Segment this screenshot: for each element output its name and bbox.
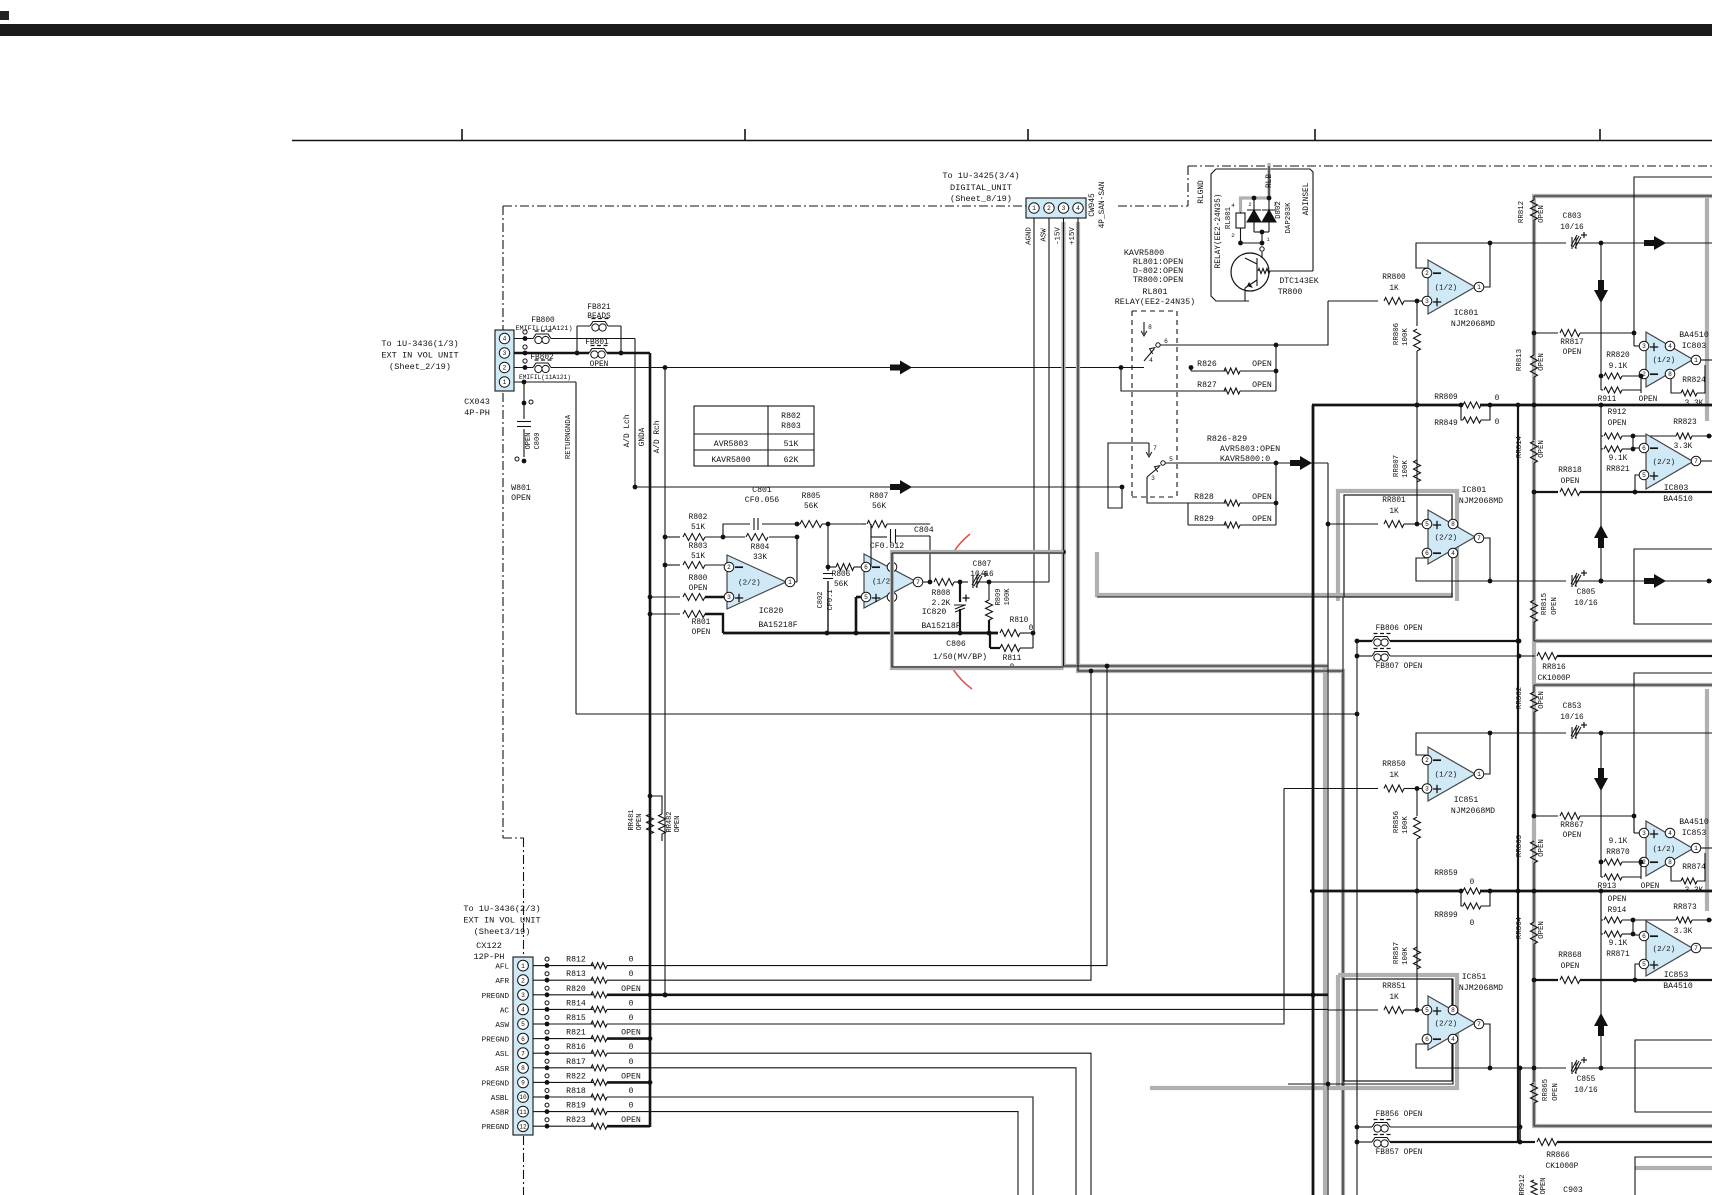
wire A/D Rch down bbox=[664, 368, 666, 996]
feedback wire IC801(1/2) bbox=[1416, 243, 1490, 282]
svg-text:7: 7 bbox=[916, 579, 920, 586]
wire R823 PREGND row thick bbox=[607, 1125, 650, 1128]
connector pin 6 PREGND bbox=[518, 1033, 529, 1044]
svg-text:2: 2 bbox=[1248, 202, 1251, 208]
wire output row to C855 bbox=[1490, 1067, 1566, 1069]
svg-text:DTC143EK: DTC143EK bbox=[1279, 277, 1318, 286]
capacitor C805 10/16 bbox=[1571, 575, 1573, 587]
svg-text:OPEN: OPEN bbox=[689, 585, 708, 593]
svg-text:EMIFIL(11A121): EMIFIL(11A121) bbox=[515, 325, 572, 333]
svg-text:3.3K: 3.3K bbox=[1685, 887, 1704, 895]
ferrite bead FB800 EMIFIL(11A121) bbox=[533, 337, 551, 341]
svg-text:RR873: RR873 bbox=[1673, 904, 1697, 912]
svg-text:5: 5 bbox=[521, 1021, 525, 1028]
svg-text:10/16: 10/16 bbox=[1574, 1087, 1598, 1095]
wire A/D Rch into R802 bbox=[663, 535, 668, 540]
capacitor C800 OPEN bbox=[523, 382, 525, 403]
svg-text:7: 7 bbox=[1694, 458, 1698, 465]
svg-text:RR481: RR481 bbox=[628, 809, 636, 830]
svg-text:ASBL: ASBL bbox=[491, 1095, 510, 1103]
connector pin 12 PREGND bbox=[518, 1121, 529, 1132]
svg-text:PREGND: PREGND bbox=[482, 993, 510, 1001]
wire pin 1 bbox=[533, 965, 543, 967]
svg-text:C803: C803 bbox=[1563, 213, 1582, 221]
svg-text:OPEN: OPEN bbox=[1538, 921, 1546, 939]
svg-text:C805: C805 bbox=[1577, 589, 1596, 597]
svg-text:2.2K: 2.2K bbox=[932, 600, 951, 608]
capacitor C804 CF0.012 bbox=[871, 536, 887, 538]
feedback wire IC851(1/2) bbox=[1416, 733, 1490, 769]
svg-text:3: 3 bbox=[1151, 475, 1155, 482]
resistor R809 100K bbox=[988, 582, 990, 600]
svg-text:CX043: CX043 bbox=[464, 397, 490, 407]
wire ASL row bbox=[607, 1053, 1091, 1195]
svg-text:OPEN: OPEN bbox=[621, 1116, 641, 1125]
svg-text:RR807: RR807 bbox=[1393, 455, 1401, 477]
svg-text:1K: 1K bbox=[1389, 508, 1399, 516]
svg-text:4: 4 bbox=[1231, 202, 1235, 209]
wire pin4 A/D Lch bbox=[514, 338, 635, 340]
svg-text:C806: C806 bbox=[946, 640, 966, 649]
svg-text:R821: R821 bbox=[566, 1029, 586, 1038]
svg-text:9.1K: 9.1K bbox=[1609, 940, 1628, 948]
wire pin1 RETURNGNDA bbox=[514, 381, 576, 383]
svg-text:56K: 56K bbox=[804, 503, 818, 511]
svg-text:C807: C807 bbox=[973, 561, 992, 569]
svg-text:OPEN: OPEN bbox=[1563, 349, 1582, 357]
connector pin 2 AFR bbox=[518, 975, 529, 986]
resistor R913 OPEN bbox=[1600, 862, 1602, 877]
wire -15V down bbox=[1064, 218, 1329, 666]
svg-text:OPEN: OPEN bbox=[511, 494, 531, 503]
resistor R827 OPEN bbox=[1119, 365, 1124, 370]
svg-text:1K: 1K bbox=[1389, 772, 1399, 780]
svg-text:BA4510: BA4510 bbox=[1663, 495, 1693, 504]
svg-text:0: 0 bbox=[629, 1043, 634, 1052]
svg-text:R808: R808 bbox=[932, 590, 951, 598]
svg-text:OPEN: OPEN bbox=[1561, 478, 1580, 486]
svg-text:3: 3 bbox=[1425, 298, 1429, 305]
svg-text:R814: R814 bbox=[566, 999, 586, 1008]
resistor RR814 OPEN bbox=[1531, 441, 1538, 463]
svg-text:AFR: AFR bbox=[495, 978, 509, 986]
svg-text:OPEN: OPEN bbox=[621, 1029, 641, 1038]
table AVR5803/KAVR5800 values bbox=[694, 406, 814, 466]
svg-text:(2/2): (2/2) bbox=[1653, 459, 1676, 467]
wire thick bias bus y405 bbox=[1312, 404, 1712, 407]
svg-text:R827: R827 bbox=[1197, 381, 1217, 390]
svg-text:4: 4 bbox=[1668, 830, 1672, 837]
ferrite bead FB801 OPEN bbox=[589, 351, 607, 355]
svg-text:EXT IN VOL UNIT: EXT IN VOL UNIT bbox=[463, 916, 540, 926]
svg-text:BA4510: BA4510 bbox=[1679, 331, 1709, 340]
svg-text:CF0.1: CF0.1 bbox=[827, 589, 835, 610]
wire pin3 GNDA bbox=[514, 352, 650, 355]
svg-text:OPEN: OPEN bbox=[1608, 896, 1627, 904]
svg-text:PREGND: PREGND bbox=[482, 1080, 510, 1088]
svg-text:1: 1 bbox=[1694, 357, 1698, 364]
resistor RR820 9.1K bbox=[1599, 374, 1604, 379]
bias arrow up x1601 bbox=[1600, 405, 1602, 581]
svg-text:NJM2068MD: NJM2068MD bbox=[1459, 984, 1503, 993]
op-amp IC803 (2/2) bbox=[1646, 434, 1693, 489]
wire output to C853 bbox=[1490, 732, 1566, 734]
wire ASBR row bbox=[607, 1112, 1018, 1195]
gray highlight IC801(2/2) box bbox=[1338, 491, 1457, 601]
outline relay drive box bbox=[1216, 169, 1313, 271]
ferrite bead FB857 OPEN bbox=[1355, 1140, 1360, 1145]
connector CX043 4P-PH bbox=[495, 330, 514, 391]
svg-text:(1/2): (1/2) bbox=[1653, 846, 1676, 854]
svg-text:ADINSEL: ADINSEL bbox=[1303, 182, 1311, 215]
resistor RR812 OPEN bbox=[1533, 196, 1535, 200]
svg-text:1K: 1K bbox=[1389, 994, 1399, 1002]
resistor RR862 OPEN bbox=[1533, 685, 1535, 692]
svg-text:PREGND: PREGND bbox=[482, 1124, 510, 1132]
svg-text:RR862: RR862 bbox=[1516, 687, 1524, 709]
wire output to C803 bbox=[1490, 242, 1566, 244]
wire A/D Rch into relay bbox=[635, 486, 1122, 488]
capacitor C802 CF0.1 bbox=[827, 524, 829, 571]
arrow on pin2 line bbox=[890, 361, 912, 375]
svg-text:FB801: FB801 bbox=[585, 339, 609, 347]
svg-text:AFL: AFL bbox=[495, 964, 509, 972]
svg-text:5: 5 bbox=[1425, 1007, 1429, 1014]
svg-text:RR814: RR814 bbox=[1516, 435, 1524, 458]
svg-text:R828: R828 bbox=[1194, 493, 1214, 502]
feedback wire IC851(2/2) bbox=[1416, 1044, 1490, 1068]
svg-text:100K: 100K bbox=[1004, 588, 1012, 606]
svg-text:6: 6 bbox=[1642, 445, 1646, 452]
svg-text:1: 1 bbox=[521, 963, 525, 970]
svg-text:1: 1 bbox=[1477, 771, 1481, 778]
svg-text:5: 5 bbox=[1425, 521, 1429, 528]
svg-text:8: 8 bbox=[521, 1065, 525, 1072]
svg-text:ASW: ASW bbox=[1041, 228, 1049, 242]
svg-text:A/D Rch: A/D Rch bbox=[654, 421, 662, 454]
svg-text:RR856: RR856 bbox=[1393, 811, 1401, 833]
svg-text:FB807 OPEN: FB807 OPEN bbox=[1376, 663, 1423, 671]
outline IC851(2/2) block bbox=[1344, 979, 1452, 1081]
svg-text:0: 0 bbox=[629, 970, 634, 979]
svg-text:ASBR: ASBR bbox=[491, 1110, 510, 1118]
wire IC851 top rail bbox=[1534, 684, 1712, 686]
svg-text:GNDA: GNDA bbox=[639, 427, 647, 446]
op-amp IC820 (2/2) bbox=[727, 555, 786, 609]
connector pin 4 AC bbox=[518, 1004, 529, 1015]
relay dashed box bbox=[1131, 311, 1133, 497]
resistor R800 OPEN bbox=[648, 595, 653, 600]
svg-text:To 1U-3436(1/3): To 1U-3436(1/3) bbox=[381, 339, 458, 349]
wire pin 11 bbox=[533, 1111, 543, 1113]
svg-text:R809: R809 bbox=[995, 589, 1003, 606]
wire AFR row bbox=[607, 671, 1091, 980]
resistor RR807 100K bbox=[1414, 460, 1421, 482]
svg-text:AVR5803: AVR5803 bbox=[714, 440, 748, 449]
wire R822 PREGND row thick bbox=[607, 1081, 650, 1084]
wire ASBL row bbox=[607, 1097, 1033, 1195]
op-amp IC853 BA4510 (1/2) bbox=[1646, 821, 1693, 876]
svg-text:C855: C855 bbox=[1577, 1076, 1596, 1084]
svg-text:56K: 56K bbox=[872, 503, 886, 511]
svg-text:RR806: RR806 bbox=[1393, 323, 1401, 345]
gray highlight mid-right bbox=[1534, 639, 1712, 643]
black wire IC851(2/2) route bbox=[1288, 979, 1453, 1084]
gray highlight RR812 path bbox=[1534, 196, 1712, 1126]
svg-text:OPEN: OPEN bbox=[636, 814, 644, 831]
ferrite bead FB802 bbox=[533, 366, 551, 370]
svg-text:FB821: FB821 bbox=[587, 304, 611, 312]
bottom right boxes bbox=[1635, 1040, 1712, 1112]
wire pin 4 bbox=[533, 1008, 543, 1010]
gray highlight relay RLB bbox=[1241, 163, 1270, 212]
svg-text:(2/2): (2/2) bbox=[1435, 1021, 1458, 1029]
resistor RR817 OPEN bbox=[1534, 332, 1558, 334]
svg-text:1: 1 bbox=[1694, 845, 1698, 852]
svg-text:9.1K: 9.1K bbox=[1609, 455, 1628, 463]
svg-text:TR800:OPEN: TR800:OPEN bbox=[1133, 275, 1183, 285]
gray highlight right edge BA4510 bbox=[1705, 196, 1709, 421]
svg-text:R816: R816 bbox=[566, 1043, 586, 1052]
resistor RR871 9.1K bbox=[1600, 920, 1602, 934]
svg-text:FB802: FB802 bbox=[530, 354, 554, 362]
svg-text:1: 1 bbox=[788, 579, 792, 586]
svg-text:4P_SAN-SAN: 4P_SAN-SAN bbox=[1099, 181, 1107, 228]
svg-text:R813: R813 bbox=[566, 970, 586, 979]
resistor R826 OPEN bbox=[1189, 365, 1194, 370]
svg-text:R803: R803 bbox=[781, 422, 801, 431]
wire AC row bbox=[607, 1008, 1328, 1010]
svg-text:BA15218F: BA15218F bbox=[921, 622, 960, 631]
svg-text:R810: R810 bbox=[1010, 617, 1029, 625]
svg-text:RR813: RR813 bbox=[1516, 349, 1524, 371]
svg-text:10: 10 bbox=[519, 1094, 527, 1101]
svg-text:56K: 56K bbox=[834, 581, 848, 589]
wire output row to C805 bbox=[1490, 580, 1566, 582]
wire BA4510 out bbox=[1701, 359, 1712, 361]
svg-text:100K: 100K bbox=[1402, 460, 1410, 478]
svg-text:ASL: ASL bbox=[495, 1051, 509, 1059]
wire IC820(1/2) output bbox=[923, 581, 932, 583]
svg-text:8: 8 bbox=[1668, 859, 1672, 866]
wire ASW row to RR850 bbox=[1284, 788, 1378, 790]
resistor R803 51K bbox=[665, 564, 680, 566]
svg-text:1K: 1K bbox=[1389, 285, 1399, 293]
op-amp IC851 (2/2) bbox=[1417, 1009, 1422, 1011]
page artifact top-left bbox=[0, 11, 9, 20]
svg-text:CF0.056: CF0.056 bbox=[745, 496, 779, 505]
svg-text:1: 1 bbox=[1477, 284, 1481, 291]
svg-text:4: 4 bbox=[521, 1007, 525, 1014]
svg-text:5: 5 bbox=[1642, 472, 1646, 479]
svg-text:AC: AC bbox=[500, 1007, 510, 1015]
resistor R828 OPEN bbox=[1147, 477, 1188, 503]
svg-text:W801: W801 bbox=[511, 484, 531, 493]
wire pin 8 bbox=[533, 1067, 543, 1069]
svg-text:R822: R822 bbox=[566, 1072, 586, 1081]
svg-text:9: 9 bbox=[521, 1080, 525, 1087]
svg-text:OPEN: OPEN bbox=[1641, 883, 1660, 891]
svg-text:IC801: IC801 bbox=[1454, 309, 1479, 318]
svg-text:RR868: RR868 bbox=[1558, 952, 1582, 960]
svg-text:2: 2 bbox=[727, 564, 731, 571]
svg-text:100K: 100K bbox=[1402, 816, 1410, 834]
svg-text:R802: R802 bbox=[689, 514, 708, 522]
svg-text:RR820: RR820 bbox=[1606, 352, 1630, 360]
svg-text:CK1000P: CK1000P bbox=[1538, 675, 1571, 683]
svg-text:RR857: RR857 bbox=[1393, 942, 1401, 964]
svg-text:(1/2): (1/2) bbox=[1435, 285, 1458, 293]
svg-text:0: 0 bbox=[629, 1102, 634, 1111]
wire thick vertical x1313 bbox=[1312, 405, 1315, 1195]
op-amp IC820 (1/2) bbox=[864, 554, 915, 608]
svg-text:2: 2 bbox=[1425, 757, 1429, 764]
resistor R829 OPEN bbox=[1187, 503, 1189, 525]
svg-text:2: 2 bbox=[1047, 205, 1051, 212]
svg-text:(Sheet_2/19): (Sheet_2/19) bbox=[389, 362, 451, 372]
svg-text:RETURNGNDA: RETURNGNDA bbox=[565, 414, 573, 459]
ferrite bead FB807 OPEN bbox=[1357, 655, 1372, 657]
svg-text:R819: R819 bbox=[566, 1102, 586, 1111]
svg-text:RR801: RR801 bbox=[1382, 497, 1406, 505]
resistor RR866 CK1000P bbox=[1520, 1141, 1535, 1143]
svg-text:AVR5803:OPEN: AVR5803:OPEN bbox=[1220, 444, 1280, 454]
resistor RR821 9.1K bbox=[1600, 436, 1602, 449]
svg-text:51K: 51K bbox=[691, 524, 705, 532]
svg-text:OPEN: OPEN bbox=[1561, 963, 1580, 971]
wire pin 12 bbox=[533, 1125, 543, 1127]
svg-text:R818: R818 bbox=[566, 1087, 586, 1096]
wire AGND down bbox=[1033, 218, 1035, 633]
svg-text:RR815: RR815 bbox=[1541, 593, 1549, 615]
svg-text:(2/2): (2/2) bbox=[738, 580, 761, 588]
svg-text:BEADS: BEADS bbox=[587, 313, 611, 321]
svg-text:(2/2): (2/2) bbox=[1653, 946, 1676, 954]
svg-text:OPEN: OPEN bbox=[1551, 597, 1559, 615]
svg-text:RR824: RR824 bbox=[1682, 377, 1706, 385]
thick analog bus bbox=[723, 632, 990, 635]
svg-text:RR850: RR850 bbox=[1382, 761, 1406, 769]
svg-text:7: 7 bbox=[1694, 945, 1698, 952]
svg-text:RR867: RR867 bbox=[1560, 822, 1584, 830]
svg-text:0: 0 bbox=[1029, 625, 1034, 633]
wire RR812 top to gray bbox=[1534, 195, 1712, 197]
svg-text:51K: 51K bbox=[784, 440, 799, 449]
svg-text:IC820: IC820 bbox=[759, 607, 784, 616]
connector pin 7 ASL bbox=[518, 1048, 529, 1059]
svg-text:EXT IN VOL UNIT: EXT IN VOL UNIT bbox=[381, 351, 458, 361]
svg-text:1/50(MV/BP): 1/50(MV/BP) bbox=[933, 652, 987, 662]
svg-text:DIGITAL_UNIT: DIGITAL_UNIT bbox=[950, 183, 1012, 193]
svg-text:DAP203K: DAP203K bbox=[1285, 202, 1293, 234]
svg-text:1: 1 bbox=[1032, 205, 1036, 212]
wire pin 10 bbox=[533, 1096, 543, 1098]
svg-text:C804: C804 bbox=[914, 526, 934, 535]
svg-text:PREGND: PREGND bbox=[482, 1037, 510, 1045]
svg-text:OPEN: OPEN bbox=[1252, 515, 1272, 524]
svg-text:RR870: RR870 bbox=[1606, 849, 1630, 857]
wire vertical x1520 bottom bbox=[1519, 1068, 1521, 1142]
wire AFL row bbox=[607, 666, 1107, 966]
feedback R807 56K bbox=[870, 524, 872, 567]
svg-text:OPEN: OPEN bbox=[1538, 205, 1546, 223]
svg-text:3: 3 bbox=[521, 992, 525, 999]
svg-text:RR818: RR818 bbox=[1558, 467, 1582, 475]
connector pin 8 ASR bbox=[518, 1062, 529, 1073]
transistor TR800 DTC143EK bbox=[1231, 253, 1269, 291]
svg-text:RR866: RR866 bbox=[1546, 1152, 1570, 1160]
resistor RR809 0 / RR849 0 pair bbox=[1462, 400, 1480, 409]
svg-text:+15V: +15V bbox=[1069, 227, 1077, 245]
svg-text:C802: C802 bbox=[817, 592, 825, 609]
svg-text:RR851: RR851 bbox=[1382, 983, 1406, 991]
svg-text:OPEN: OPEN bbox=[692, 629, 711, 637]
bias arrow up lower bbox=[1600, 891, 1602, 1068]
unit border EXT IN VOL UNIT bbox=[502, 206, 504, 838]
svg-text:R826-829: R826-829 bbox=[1207, 434, 1247, 444]
wire pin2 A/D Rch bbox=[514, 367, 1144, 369]
resistor RR870 9.1K bbox=[1599, 860, 1604, 865]
svg-text:IC851: IC851 bbox=[1454, 796, 1479, 805]
wire RR865 corner right bbox=[1534, 1125, 1712, 1127]
svg-text:CF0.012: CF0.012 bbox=[870, 542, 904, 551]
svg-text:FB857 OPEN: FB857 OPEN bbox=[1376, 1149, 1423, 1157]
svg-text:NJM2068MD: NJM2068MD bbox=[1451, 320, 1495, 329]
wire ASW row bbox=[607, 789, 1284, 1025]
svg-text:0: 0 bbox=[1495, 395, 1500, 403]
wire stub y1083 bbox=[1326, 1082, 1331, 1087]
svg-text:OPEN: OPEN bbox=[1563, 832, 1582, 840]
connector pin 3 PREGND bbox=[518, 989, 529, 1000]
resistor RR863 OPEN bbox=[1532, 814, 1537, 819]
svg-text:RELAY(EE2-24N35): RELAY(EE2-24N35) bbox=[1115, 297, 1195, 307]
red annotation arcs bbox=[953, 534, 970, 553]
svg-text:R817: R817 bbox=[566, 1058, 586, 1067]
svg-text:FB856 OPEN: FB856 OPEN bbox=[1376, 1111, 1423, 1119]
svg-text:FB800: FB800 bbox=[531, 317, 555, 325]
svg-text:R805: R805 bbox=[802, 493, 821, 501]
wire upper contact to IC801(1/2) bbox=[1160, 301, 1328, 345]
connector pin 1 AFL bbox=[518, 960, 529, 971]
wire R821 PREGND row thick bbox=[607, 1037, 650, 1040]
svg-text:-15V: -15V bbox=[1055, 227, 1063, 245]
svg-text:R802: R802 bbox=[781, 412, 801, 421]
svg-text:2: 2 bbox=[1231, 232, 1235, 239]
svg-text:6: 6 bbox=[1425, 550, 1429, 557]
svg-text:R803: R803 bbox=[689, 543, 708, 551]
svg-text:4P-PH: 4P-PH bbox=[464, 408, 490, 418]
svg-text:RR871: RR871 bbox=[1606, 951, 1630, 959]
svg-text:4: 4 bbox=[1451, 1036, 1455, 1043]
svg-text:IC801: IC801 bbox=[1462, 486, 1487, 495]
wire R820 PREGND row thick bbox=[607, 993, 1328, 996]
svg-text:NJM2068MD: NJM2068MD bbox=[1459, 497, 1503, 506]
svg-text:9.1K: 9.1K bbox=[1609, 838, 1628, 846]
svg-text:BA4510: BA4510 bbox=[1663, 982, 1693, 991]
op-amp IC853 (2/2) bbox=[1646, 921, 1693, 976]
wire RETURNGNDA down bbox=[575, 382, 577, 714]
svg-text:RR849: RR849 bbox=[1434, 420, 1458, 428]
svg-text:OPEN: OPEN bbox=[621, 1072, 641, 1081]
wire box mid right bbox=[1634, 673, 1712, 833]
svg-text:R812: R812 bbox=[566, 956, 586, 965]
svg-text:NJM2068MD: NJM2068MD bbox=[1451, 807, 1495, 816]
connector CW945 4P_SAN-SAN bbox=[1026, 198, 1086, 218]
svg-text:BA4510: BA4510 bbox=[1679, 818, 1709, 827]
svg-text:7: 7 bbox=[1477, 1021, 1481, 1028]
resistor RR912 OPEN bottom bbox=[1531, 1180, 1537, 1195]
connector CX122 12P-PH bbox=[513, 957, 533, 1135]
